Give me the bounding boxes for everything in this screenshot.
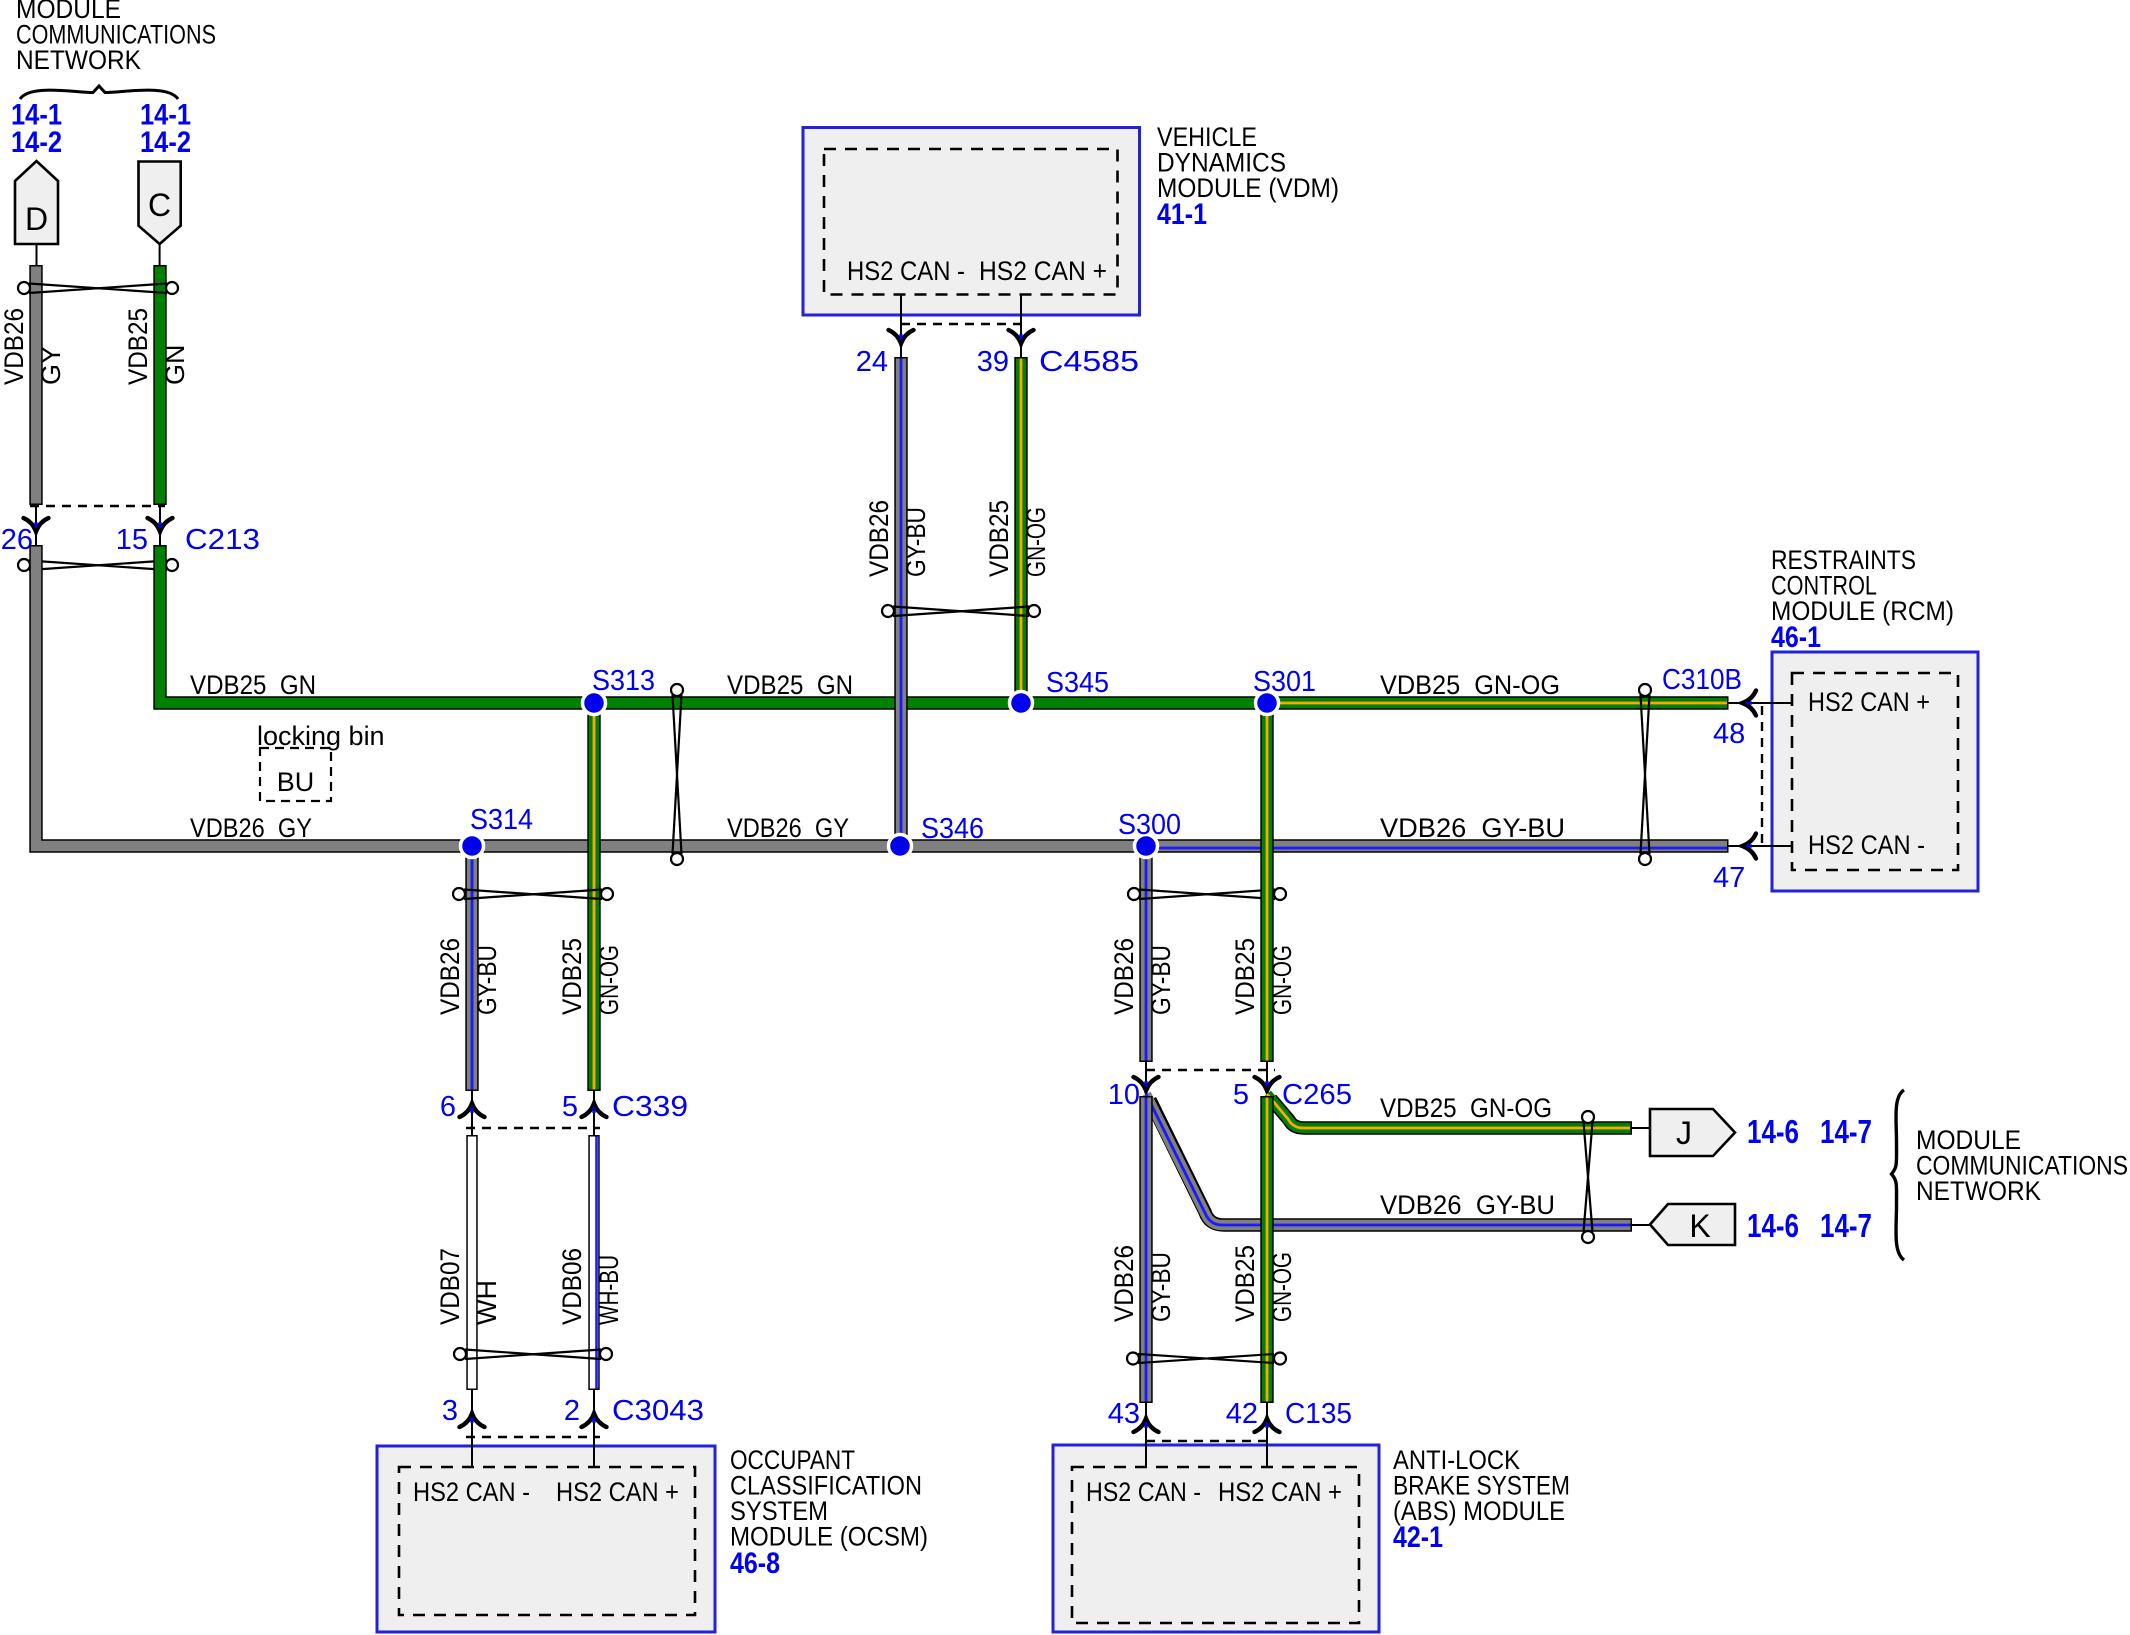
- svg-text:S314: S314: [470, 804, 533, 836]
- wire stub to K: [1630, 1224, 1651, 1226]
- svg-text:14-2: 14-2: [11, 126, 62, 159]
- svg-text:K: K: [1689, 1208, 1710, 1244]
- wire VDB26 GY-BU C265 to C135: [1139, 1096, 1152, 1403]
- page refs 14-6 14-7 (K): [1747, 1207, 1872, 1244]
- page refs 14-1 14-2 (left): [11, 99, 62, 160]
- connector C3043 boundary: [466, 1436, 600, 1438]
- svg-text:VDB06: VDB06: [557, 1248, 587, 1325]
- wire VDB25 GN bus (corner run): [160, 545, 1268, 703]
- svg-text:S313: S313: [592, 665, 655, 697]
- wire VDB26 GY bus (left corner run): [36, 545, 1147, 846]
- svg-text:GY-BU: GY-BU: [1146, 945, 1176, 1015]
- svg-text:C339: C339: [612, 1091, 688, 1123]
- svg-text:C310B: C310B: [1662, 664, 1742, 696]
- label MODULE COMMUNICATIONS NETWORK (right): [1916, 1125, 2128, 1206]
- label ANTI-LOCK BRAKE SYSTEM (ABS) MODULE 42-1: [1393, 1445, 1570, 1554]
- twisted pair symbol (bus pair, left): [671, 684, 683, 865]
- svg-text:48: 48: [1713, 718, 1745, 750]
- svg-text:VDB26 GY-BU: VDB26 GY-BU: [1380, 1190, 1555, 1220]
- header MODULE COMMUNICATIONS NETWORK (top left): [16, 0, 216, 75]
- connector C310B boundary (vertical dashed): [1761, 706, 1763, 849]
- splice S346: [889, 813, 985, 858]
- svg-text:VDB26: VDB26: [0, 308, 29, 385]
- connector C4585 boundary: [901, 323, 1021, 325]
- svg-text:VDB25: VDB25: [557, 938, 587, 1015]
- svg-text:S345: S345: [1046, 667, 1109, 699]
- svg-text:VDB25: VDB25: [123, 308, 153, 385]
- svg-text:HS2 CAN -: HS2 CAN -: [413, 1477, 530, 1507]
- module box VDM (VEHICLE DYNAMICS MODULE): [803, 128, 1140, 316]
- svg-text:6: 6: [440, 1091, 456, 1123]
- wire VDB26 GY-BU bus segment to C310B: [1146, 846, 1729, 848]
- svg-text:46-8: 46-8: [730, 1547, 780, 1580]
- svg-text:D: D: [25, 201, 48, 237]
- svg-text:VDB26 GY: VDB26 GY: [727, 813, 849, 843]
- pin arrow 15: [148, 518, 173, 532]
- svg-text:HS2 CAN +: HS2 CAN +: [1218, 1477, 1342, 1507]
- pin arrow 24: [889, 330, 914, 344]
- svg-text:HS2 CAN -: HS2 CAN -: [847, 256, 965, 286]
- svg-text:GN: GN: [160, 345, 190, 386]
- svg-text:5: 5: [1233, 1079, 1249, 1111]
- label VEHICLE DYNAMICS MODULE (VDM) 41-1: [1157, 122, 1339, 231]
- svg-text:VDB07: VDB07: [435, 1248, 465, 1325]
- locking bin dashed box with BU: [260, 748, 331, 801]
- wire VDB25 GN-OG drop S301 to C265: [1260, 703, 1273, 1062]
- svg-text:J: J: [1676, 1115, 1692, 1151]
- pin line 47: [1728, 845, 1791, 847]
- pin line 3: [471, 1390, 473, 1467]
- svg-text:42-1: 42-1: [1393, 1521, 1443, 1554]
- svg-text:GY-BU: GY-BU: [472, 945, 502, 1015]
- brace under header: [20, 86, 178, 99]
- pin arrow 5: [582, 1104, 607, 1118]
- svg-text:5: 5: [562, 1091, 578, 1123]
- pin arrow 47: [1743, 834, 1757, 859]
- pin arrow 43: [1134, 1419, 1159, 1433]
- module box OCSM (OCCUPANT CLASSIFICATION SYSTEM MODULE): [377, 1446, 715, 1632]
- wire stub from D: [36, 244, 38, 266]
- label RESTRAINTS CONTROL MODULE (RCM) 46-1: [1771, 545, 1954, 654]
- svg-text:39: 39: [977, 346, 1009, 378]
- twisted pair symbol (below C213): [18, 559, 178, 571]
- pin line 15: [159, 505, 161, 546]
- wire VDB26 GY vertical from D: [29, 265, 42, 505]
- svg-text:2: 2: [564, 1395, 580, 1427]
- svg-text:VDB26 GY: VDB26 GY: [190, 813, 312, 843]
- wire VDB26 GY-BU drop S300 to C265: [1139, 846, 1152, 1062]
- svg-text:14-2: 14-2: [140, 126, 191, 159]
- svg-text:HS2 CAN -: HS2 CAN -: [1808, 830, 1925, 860]
- svg-text:26: 26: [1, 524, 33, 556]
- pin line 43: [1145, 1403, 1147, 1467]
- svg-text:46-1: 46-1: [1771, 621, 1821, 654]
- svg-text:VDB25 GN: VDB25 GN: [727, 670, 853, 700]
- svg-text:C135: C135: [1285, 1398, 1352, 1430]
- svg-text:GN-OG: GN-OG: [594, 945, 624, 1015]
- svg-text:WH: WH: [472, 1280, 502, 1325]
- wire VDB25 GN-OG C265 to C135: [1260, 1096, 1273, 1403]
- svg-text:C: C: [148, 187, 171, 223]
- svg-text:C3043: C3043: [612, 1395, 704, 1427]
- svg-text:GY-BU: GY-BU: [901, 507, 931, 577]
- pin arrow 2: [582, 1414, 607, 1428]
- twisted pair symbol (bus pair, right near C310B): [1639, 684, 1651, 865]
- svg-text:VDB25 GN-OG: VDB25 GN-OG: [1380, 1093, 1552, 1123]
- wire VDB25 GN-OG bus segment to C310B: [1267, 696, 1729, 709]
- connector J: [1650, 1109, 1735, 1156]
- module box RCM (RESTRAINTS CONTROL MODULE): [1772, 652, 1978, 891]
- svg-text:47: 47: [1713, 862, 1745, 894]
- wire VDB26 GY-BU drop from C4585 pin 24: [894, 357, 907, 846]
- connector K: [1650, 1204, 1735, 1245]
- svg-text:14-7: 14-7: [1820, 1207, 1872, 1244]
- pin line 48: [1728, 702, 1791, 704]
- pin arrow 48: [1743, 691, 1757, 716]
- twisted pair symbol (J/K wires): [1582, 1111, 1594, 1243]
- pin line 10: [1145, 1062, 1147, 1097]
- svg-text:VDB25: VDB25: [1230, 938, 1260, 1015]
- svg-text:43: 43: [1108, 1398, 1140, 1430]
- brace (right, module communications network): [1892, 1090, 1905, 1260]
- connector C265 boundary: [1146, 1069, 1275, 1071]
- wire VDB25 GN-OG drop from C4585 pin 39: [1014, 357, 1027, 703]
- splice S345: [1010, 667, 1110, 715]
- svg-text:NETWORK: NETWORK: [1916, 1176, 2041, 1206]
- twisted pair symbol (D/C wires): [18, 282, 178, 294]
- pin line 5 (C265): [1266, 1062, 1268, 1097]
- svg-text:C265: C265: [1282, 1079, 1352, 1111]
- twisted pair symbol (OCSM wires): [454, 1348, 612, 1360]
- svg-text:10: 10: [1108, 1079, 1140, 1111]
- pin arrow 6: [460, 1104, 485, 1118]
- svg-text:BU: BU: [277, 767, 315, 797]
- wire VDB25 GN vertical from C: [153, 265, 166, 505]
- wire VDB25 GN-OG branch to J: [1267, 1094, 1632, 1128]
- svg-text:VDB25: VDB25: [1230, 1245, 1260, 1322]
- wire VDB26 GY-BU drop from S314 to C339: [465, 846, 478, 1091]
- connector C213 boundary: [30, 505, 165, 507]
- svg-text:S301: S301: [1253, 666, 1316, 698]
- svg-text:HS2 CAN -: HS2 CAN -: [1086, 1477, 1201, 1507]
- svg-text:42: 42: [1226, 1398, 1258, 1430]
- svg-text:C213: C213: [185, 524, 260, 556]
- twisted pair symbol (VDM drops): [882, 605, 1040, 617]
- connector C339 boundary: [466, 1127, 600, 1129]
- svg-text:24: 24: [856, 346, 888, 378]
- svg-text:41-1: 41-1: [1157, 198, 1207, 231]
- module box ABS (ANTI-LOCK BRAKE SYSTEM MODULE): [1053, 1445, 1379, 1632]
- svg-text:GN-OG: GN-OG: [1021, 507, 1051, 577]
- svg-text:WH-BU: WH-BU: [594, 1255, 624, 1325]
- svg-text:GY: GY: [36, 346, 66, 385]
- svg-text:VDB25: VDB25: [984, 500, 1014, 577]
- splice S314: [461, 804, 534, 858]
- pin arrow 5 (C265): [1255, 1077, 1280, 1091]
- pin line 6: [471, 1091, 473, 1136]
- pin line 5: [593, 1091, 595, 1136]
- pin line 42: [1266, 1403, 1268, 1467]
- connector C: [139, 162, 181, 245]
- svg-text:VDB26: VDB26: [435, 938, 465, 1015]
- svg-text:HS2 CAN +: HS2 CAN +: [979, 256, 1107, 286]
- twisted pair symbol (S314/S313 drops): [453, 888, 613, 900]
- pin arrow 39: [1009, 330, 1034, 344]
- svg-text:VDB26: VDB26: [1109, 1245, 1139, 1322]
- svg-text:14-6: 14-6: [1747, 1113, 1799, 1150]
- pin line 24: [900, 294, 902, 358]
- pin line 26: [35, 505, 37, 546]
- svg-text:14-7: 14-7: [1820, 1113, 1872, 1150]
- svg-text:14-6: 14-6: [1747, 1207, 1799, 1244]
- pin line 39: [1020, 294, 1022, 358]
- pin arrow 26: [24, 518, 49, 532]
- wire VDB26 GY-BU branch to K: [1146, 1094, 1632, 1225]
- wire VDB25 GN-OG drop from S313 to C339: [587, 703, 600, 1091]
- pin arrow 3: [460, 1414, 485, 1428]
- twisted pair symbol (S300/S301 drops): [1128, 888, 1286, 900]
- splice S300: [1118, 809, 1181, 858]
- page refs 14-6 14-7 (J): [1747, 1113, 1872, 1150]
- twisted pair symbol (above C135): [1127, 1353, 1286, 1365]
- wire VDB06 WH-BU to C3043: [594, 1135, 597, 1390]
- svg-text:locking bin: locking bin: [257, 721, 385, 751]
- pin line 2: [593, 1390, 595, 1467]
- page refs 14-1 14-2 (right): [140, 99, 191, 160]
- svg-text:VDB25 GN: VDB25 GN: [190, 670, 316, 700]
- splice S313: [583, 665, 656, 715]
- splice S301: [1253, 666, 1316, 715]
- svg-text:VDB26: VDB26: [1109, 938, 1139, 1015]
- svg-text:S346: S346: [921, 813, 984, 845]
- pin arrow 10: [1134, 1077, 1159, 1091]
- svg-text:S300: S300: [1118, 809, 1181, 841]
- svg-text:GY-BU: GY-BU: [1146, 1252, 1176, 1322]
- pin arrow 42: [1255, 1419, 1280, 1433]
- svg-text:VDB26: VDB26: [864, 500, 894, 577]
- connector D: [15, 161, 58, 244]
- svg-text:VDB25 GN-OG: VDB25 GN-OG: [1380, 670, 1560, 700]
- svg-text:GN-OG: GN-OG: [1267, 1252, 1297, 1322]
- svg-text:VDB26 GY-BU: VDB26 GY-BU: [1380, 813, 1565, 843]
- svg-text:C4585: C4585: [1039, 346, 1139, 378]
- svg-text:15: 15: [116, 524, 148, 556]
- wire stub from C: [159, 244, 161, 266]
- svg-text:3: 3: [442, 1395, 458, 1427]
- svg-text:HS2 CAN +: HS2 CAN +: [1808, 687, 1930, 717]
- wire stub to J: [1630, 1127, 1651, 1129]
- connector C135 boundary: [1146, 1440, 1267, 1442]
- svg-text:NETWORK: NETWORK: [16, 45, 141, 75]
- label OCCUPANT CLASSIFICATION SYSTEM MODULE (OCSM) 46-8: [730, 1445, 928, 1580]
- wire VDB07 WH to C3043: [466, 1135, 477, 1390]
- svg-text:HS2 CAN +: HS2 CAN +: [556, 1477, 679, 1507]
